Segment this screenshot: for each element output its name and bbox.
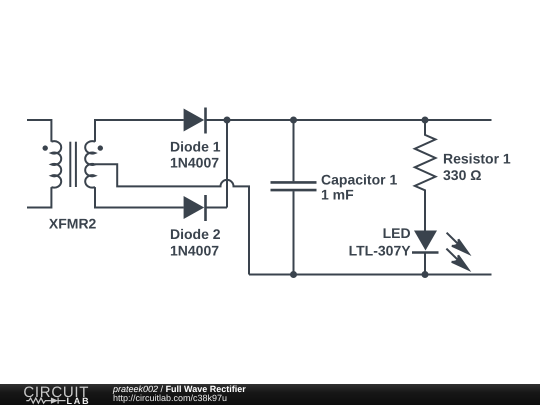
svg-text:http://circuitlab.com/c38k97u: http://circuitlab.com/c38k97u: [113, 393, 227, 403]
svg-text:Diode 2: Diode 2: [170, 226, 221, 242]
svg-text:1N4007: 1N4007: [170, 242, 219, 258]
svg-text:LED: LED: [383, 225, 411, 241]
svg-text:1N4007: 1N4007: [170, 155, 219, 171]
svg-text:XFMR2: XFMR2: [49, 216, 97, 232]
svg-text:LTL-307Y: LTL-307Y: [349, 242, 412, 258]
svg-text:Capacitor 1: Capacitor 1: [321, 171, 397, 187]
svg-text:330 Ω: 330 Ω: [443, 167, 481, 183]
svg-text:1 mF: 1 mF: [321, 187, 354, 203]
svg-text:Diode 1: Diode 1: [170, 138, 221, 154]
svg-text:LAB: LAB: [67, 396, 91, 405]
svg-text:Resistor 1: Resistor 1: [443, 150, 511, 166]
